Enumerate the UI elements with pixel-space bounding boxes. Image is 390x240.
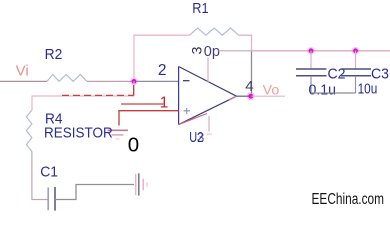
svg-text:0: 0	[128, 133, 139, 156]
wire R1 right lead	[239, 35, 252, 51]
svg-text:Vo: Vo	[263, 82, 280, 98]
svg-text:C3: C3	[371, 66, 389, 82]
ground right of C1 (rotated)	[136, 173, 147, 195]
wire supply rail to capacitors	[252, 50, 390, 52]
wire C2 C3 bottom rail	[311, 92, 356, 94]
ground 0 under pin 1	[108, 130, 129, 139]
svg-text:R2: R2	[45, 47, 63, 63]
op-amp V- pin stub	[207, 116, 212, 134]
svg-text:C1: C1	[40, 163, 58, 180]
node output (pin 4)	[247, 92, 255, 100]
svg-text:RESISTOR: RESISTOR	[44, 125, 113, 142]
wire C1 to ground	[55, 185, 134, 200]
svg-text:0p: 0p	[204, 44, 220, 60]
node C2 top	[307, 47, 315, 55]
op-amp U2 triangle	[179, 67, 237, 125]
svg-text:1: 1	[160, 95, 169, 112]
wire dashed red overlay	[62, 85, 134, 95]
wire feedback right vertical to output	[251, 51, 253, 94]
capacitor C2	[296, 51, 327, 93]
svg-text:3: 3	[189, 46, 205, 54]
capacitor C3	[341, 51, 371, 93]
wire junction to R4	[32, 81, 134, 110]
svg-text:U2: U2	[189, 130, 203, 146]
svg-text:10u: 10u	[358, 82, 378, 98]
op-amp output stub	[237, 95, 252, 97]
wire red stub above pin 1	[121, 103, 164, 105]
wire junction to op-amp pin 2	[134, 80, 179, 82]
label U2	[189, 129, 204, 146]
capacitor C1	[48, 187, 55, 211]
node junction A (Vi/R2/R1/R4)	[130, 78, 138, 86]
wire pin 1 red	[119, 111, 179, 126]
svg-text:Vi: Vi	[16, 63, 29, 80]
wire Vi input lead	[0, 80, 47, 82]
wire output Vo	[252, 95, 286, 97]
resistor R1	[190, 28, 239, 35]
svg-text:EEChina.com: EEChina.com	[312, 191, 385, 208]
wire from 0p label to feedback line	[219, 50, 252, 52]
svg-text:0.1u: 0.1u	[309, 83, 337, 99]
op-amp V+ pin 3 stub	[207, 58, 209, 83]
node C3 top	[352, 47, 360, 55]
wire R4 to C1	[32, 152, 48, 200]
wire R2 to junction	[87, 80, 134, 82]
svg-text:R1: R1	[192, 1, 208, 17]
wire feedback left vertical	[134, 35, 190, 79]
resistor R4	[26, 110, 32, 152]
svg-text:2: 2	[158, 62, 167, 79]
resistor R2	[47, 75, 87, 82]
